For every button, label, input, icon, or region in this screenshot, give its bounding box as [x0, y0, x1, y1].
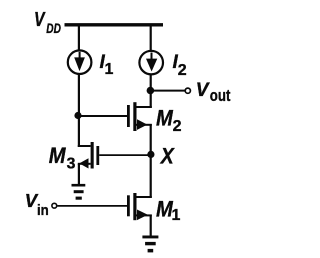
svg-text:DD: DD — [46, 20, 61, 36]
svg-text:2: 2 — [178, 62, 187, 79]
svg-text:2: 2 — [173, 118, 182, 135]
svg-text:X: X — [159, 144, 175, 169]
svg-text:3: 3 — [67, 155, 76, 172]
svg-text:M: M — [156, 105, 174, 130]
svg-text:M: M — [49, 143, 67, 168]
svg-text:1: 1 — [172, 207, 181, 224]
svg-text:V: V — [34, 9, 46, 31]
svg-text:in: in — [37, 202, 49, 219]
svg-text:out: out — [210, 87, 231, 105]
svg-text:V: V — [196, 80, 210, 101]
svg-text:1: 1 — [105, 61, 114, 78]
